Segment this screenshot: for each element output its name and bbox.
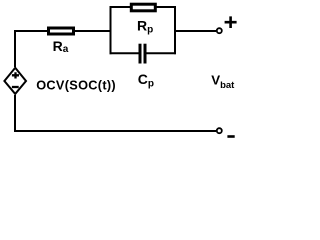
wire bottom rail	[14, 130, 216, 132]
wire left vertical (top corner down to source)	[14, 30, 16, 67]
plus sign inside source	[12, 72, 19, 78]
positive terminal circle	[217, 28, 222, 33]
resistor Ra	[49, 28, 74, 34]
capacitor Cp left plate	[139, 44, 142, 64]
negative terminal circle	[217, 128, 222, 133]
resistor Rp	[131, 4, 155, 11]
dependent source OCV diamond	[4, 68, 26, 94]
wire left vertical (source to bottom rail)	[14, 95, 16, 131]
RC block bottom branch wire right	[147, 52, 177, 54]
wire output to positive terminal	[175, 30, 216, 32]
wire top rail (left corner to RC block)	[15, 30, 112, 32]
minus sign inside source	[12, 86, 19, 88]
plus sign at positive terminal	[225, 16, 237, 28]
RC block bottom branch wire left	[110, 52, 139, 54]
minus sign at negative terminal	[227, 135, 234, 138]
capacitor Cp right plate	[144, 44, 147, 64]
RC block top branch wire	[110, 6, 177, 8]
RC block right vertical wire	[174, 6, 176, 54]
RC block left vertical wire	[110, 6, 112, 54]
svg-text:OCV(SOC(t)): OCV(SOC(t))	[36, 77, 116, 92]
